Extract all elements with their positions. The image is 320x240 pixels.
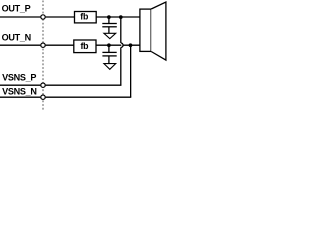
wire riser OUT_P to VSNS_P lower bbox=[120, 47, 122, 85]
wire VSNS_N left bbox=[0, 96, 40, 98]
wire VSNS_P to riser bbox=[46, 84, 122, 86]
svg-text:VSNS_P: VSNS_P bbox=[2, 73, 36, 83]
svg-text:fb: fb bbox=[80, 12, 89, 22]
capacitor C1 bottom plate bbox=[102, 26, 117, 28]
wire VSNS_P left bbox=[0, 84, 40, 86]
connector boundary dashed line bbox=[42, 1, 44, 111]
wire OUT_P fb1 to speaker bbox=[96, 16, 140, 18]
svg-text:VSNS_N: VSNS_N bbox=[2, 86, 37, 96]
capacitor C1 top plate bbox=[102, 23, 117, 25]
ferrite bead FB1 box bbox=[75, 12, 97, 23]
terminal circle OUT_P bbox=[41, 15, 45, 19]
terminal circle VSNS_N bbox=[41, 95, 45, 99]
wire OUT_N left bbox=[0, 44, 40, 46]
wire riser OUT_P to VSNS_P upper bbox=[120, 17, 122, 43]
terminal circle OUT_N bbox=[41, 43, 45, 47]
ferrite bead FB2 box bbox=[74, 40, 96, 53]
wire OUT_P to fb1 bbox=[46, 16, 75, 18]
capacitor C2 stub bbox=[108, 45, 110, 52]
wire riser OUT_N to VSNS_N bbox=[130, 45, 132, 97]
terminal circle VSNS_P bbox=[41, 83, 45, 87]
junction dot OUT_N C2 bbox=[107, 43, 111, 47]
wire VSNS_N to riser bbox=[46, 96, 132, 98]
svg-text:OUT_N: OUT_N bbox=[2, 32, 31, 42]
junction dot OUT_P riser bbox=[119, 15, 123, 19]
capacitor C1 stub bbox=[108, 17, 110, 24]
wire hop over OUT_N bbox=[121, 43, 123, 48]
capacitor C2 top plate bbox=[102, 51, 116, 53]
capacitor C1 lower stub bbox=[108, 27, 110, 34]
wire OUT_P left bbox=[0, 16, 40, 18]
svg-text:OUT_P: OUT_P bbox=[2, 4, 31, 14]
junction dot OUT_P C1 bbox=[107, 15, 111, 19]
speaker LS1 cone bbox=[151, 2, 166, 60]
wire OUT_N fb2 to hop bbox=[96, 44, 121, 46]
ground symbol G1 bbox=[104, 33, 116, 38]
junction dot OUT_N riser bbox=[129, 43, 133, 47]
capacitor C2 bottom plate bbox=[102, 55, 116, 57]
ground symbol G2 bbox=[104, 64, 116, 70]
capacitor C2 lower stub bbox=[108, 56, 110, 64]
wire OUT_N hop to speaker bbox=[123, 44, 140, 46]
speaker LS1 body bbox=[140, 9, 151, 51]
wire OUT_N to fb2 bbox=[46, 44, 74, 46]
svg-text:fb: fb bbox=[80, 41, 89, 51]
